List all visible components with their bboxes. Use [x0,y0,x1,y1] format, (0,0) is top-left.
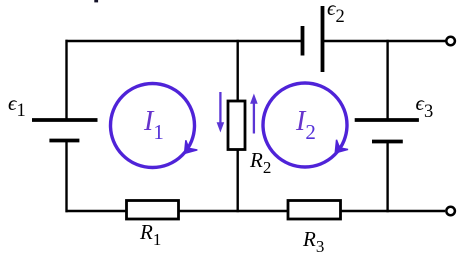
mesh current loop I1 [111,84,198,168]
wire: right branch upper [386,40,388,119]
resistor R2 [228,101,245,150]
resistor R1 [127,201,179,220]
wire: top left segment [66,40,303,42]
label I1 [144,108,164,136]
wire: bottom segment 1 [66,210,128,212]
label epsilon_1 [8,93,26,115]
battery E3 short plate [372,140,403,144]
wire: bottom segment 2 [178,210,289,212]
resistor R3 [288,201,341,220]
label epsilon_2 [327,0,345,20]
battery E1 short plate [49,139,79,143]
wire: middle branch upper [236,40,238,101]
stray mark at top edge [94,0,98,2]
wire: left branch upper [65,40,67,119]
battery E2 long plate [321,6,325,72]
battery E3 long plate [355,118,419,122]
label I2 [296,108,316,136]
wire: top right segment [323,40,446,42]
label R1 [140,222,161,243]
wire: middle branch lower [236,149,238,212]
wire: left branch lower [65,141,67,212]
label epsilon_3 [416,93,434,115]
battery E1 long plate [32,118,98,122]
terminal top right [446,37,455,46]
mesh current loop I2 [263,83,348,167]
battery E2 short plate [301,26,305,56]
terminal bottom right [446,207,455,216]
wire: bottom segment 3 [340,210,445,212]
branch current down arrow (left of R2) [217,92,225,133]
label R2 [250,150,271,171]
branch current up arrow (right of R2) [250,94,258,134]
wire: right branch lower [386,141,388,212]
label R3 [303,229,324,250]
